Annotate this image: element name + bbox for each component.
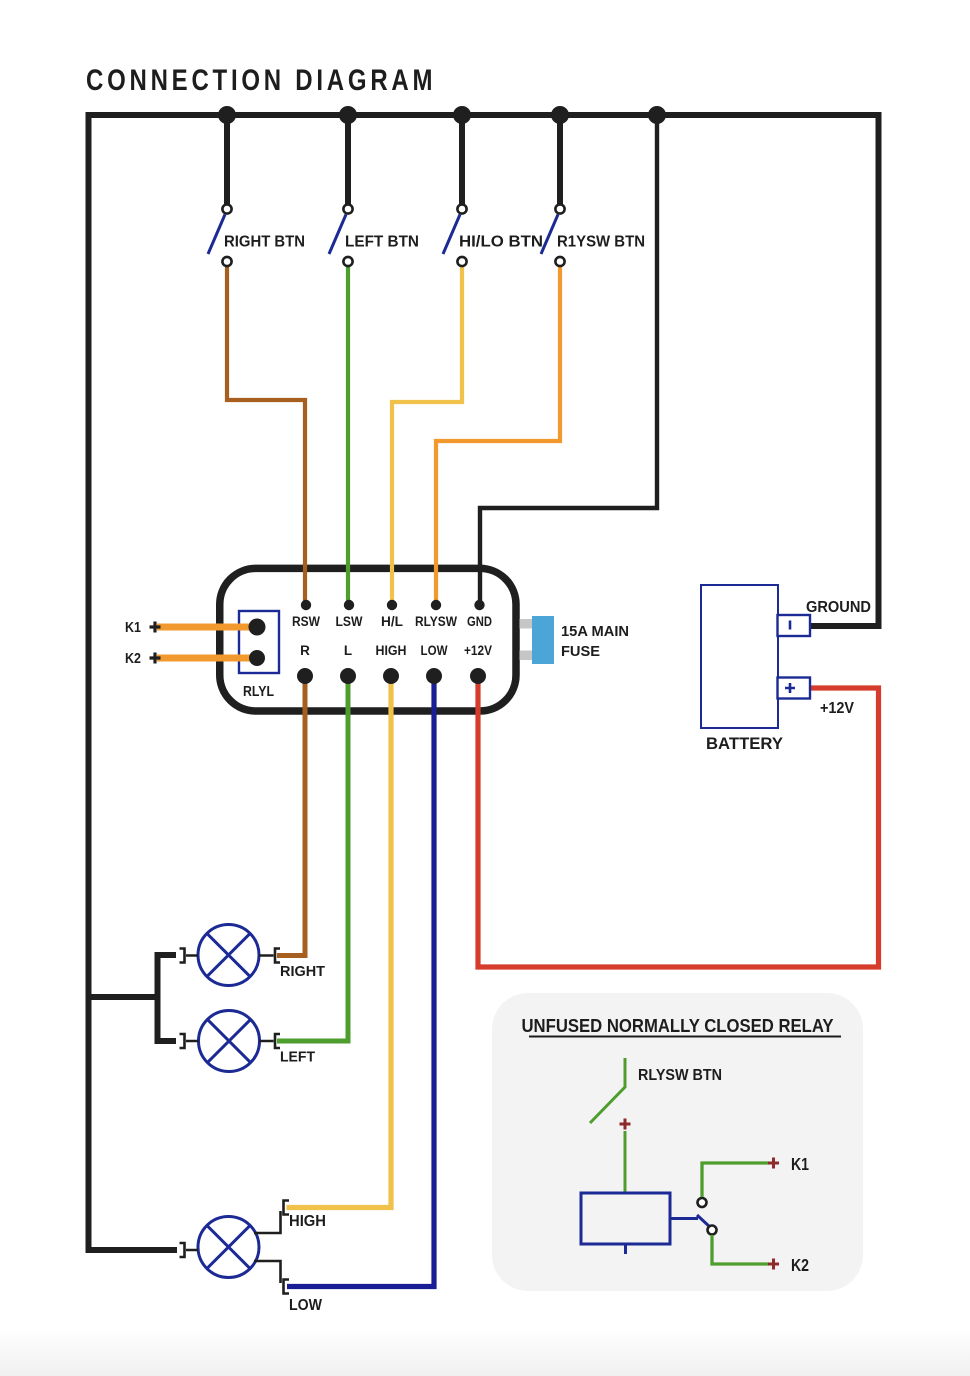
svg-text:R1YSW BTN: R1YSW BTN (557, 234, 645, 251)
svg-text:GROUND: GROUND (806, 599, 871, 616)
svg-text:HIGH: HIGH (289, 1213, 326, 1230)
pin R (297, 668, 313, 684)
pin RSW (301, 600, 311, 610)
wire: brown RSW from RIGHT BTN (227, 266, 305, 602)
fuse F1 body (532, 616, 554, 664)
wire: orange K2 coil lead (157, 655, 257, 662)
wire: orange K1 coil lead (157, 624, 257, 631)
relay contact upper (698, 1198, 707, 1207)
svg-text:CONNECTION DIAGRAM: CONNECTION DIAGRAM (86, 62, 436, 96)
junction node 1 (218, 106, 236, 124)
terminal cross relay top (620, 1119, 631, 1130)
svg-text:K2: K2 (791, 1255, 809, 1275)
relay armature (697, 1215, 711, 1228)
wire: green K1 (702, 1163, 769, 1197)
lamp LEFT (180, 1011, 281, 1072)
svg-text:RSW: RSW (292, 614, 320, 629)
lamp HIGH/LOW (180, 1201, 290, 1294)
relay inset panel (492, 993, 863, 1291)
svg-text:FUSE: FUSE (561, 644, 600, 660)
pin HIGH (383, 668, 399, 684)
wire: switch stub HI/LO BTN (459, 110, 465, 204)
junction node 5 (648, 106, 666, 124)
wire: lamp branch to RIGHT/LEFT lamps (89, 955, 177, 1041)
junction node 4 (551, 106, 569, 124)
svg-text:L: L (344, 643, 352, 658)
controller module body (220, 568, 516, 711)
svg-text:RIGHT: RIGHT (280, 963, 325, 980)
svg-text:LEFT: LEFT (280, 1049, 315, 1066)
wire: green LSW from LEFT BTN (346, 266, 350, 602)
svg-text:K1: K1 (125, 619, 141, 636)
switch RIGHT BTN (208, 204, 232, 266)
battery negative terminal (778, 615, 811, 636)
svg-text:K1: K1 (791, 1154, 809, 1174)
battery BT1 body (701, 585, 778, 728)
wire: switch stub R1YSW BTN (557, 110, 563, 204)
svg-text:R: R (300, 643, 310, 658)
wire: switch stub LEFT BTN (345, 110, 351, 204)
wire: relay common (670, 1217, 698, 1220)
svg-text:RLYL: RLYL (243, 684, 274, 700)
wire: green L output to LEFT lamp (277, 678, 348, 1041)
terminal cross K1 (inset) (768, 1158, 779, 1169)
pin RLYSW (431, 600, 441, 610)
relay coil box (581, 1193, 670, 1244)
svg-text:LEFT BTN: LEFT BTN (345, 234, 419, 251)
wire: GND from bus to controller (480, 115, 657, 603)
wire: orange RLYSW from R1YSW BTN (436, 266, 560, 602)
wire: green coil feed (624, 1131, 627, 1192)
svg-text:15A MAIN: 15A MAIN (561, 624, 629, 640)
pin LSW (344, 600, 354, 610)
wire: red +12V to battery (478, 678, 879, 967)
fuse F1 tab upper (520, 619, 533, 629)
pin RLYL upper (249, 619, 266, 636)
pin LOW (426, 668, 442, 684)
junction node 2 (339, 106, 357, 124)
switch RLYSW BTN (inset) (590, 1058, 625, 1123)
switch R1YSW BTN (541, 204, 565, 266)
relay RLYL box (239, 611, 279, 673)
svg-text:H/L: H/L (381, 614, 403, 629)
pin GND (474, 600, 484, 610)
pin L (340, 668, 356, 684)
junction node 3 (453, 106, 471, 124)
relay contact lower (708, 1226, 717, 1235)
svg-text:UNFUSED NORMALLY CLOSED RELAY: UNFUSED NORMALLY CLOSED RELAY (522, 1016, 834, 1036)
wire: brown R output to RIGHT lamp (277, 678, 305, 956)
svg-text:GND: GND (467, 614, 492, 629)
battery positive terminal (778, 678, 811, 699)
wire: green K2 (712, 1235, 769, 1264)
svg-text:LSW: LSW (336, 614, 363, 629)
switch HI/LO BTN (443, 204, 467, 266)
pin RLYL lower (249, 650, 265, 666)
terminal cross K1 (150, 622, 161, 633)
terminal cross K2 (inset) (768, 1259, 779, 1270)
svg-text:RLYSW: RLYSW (415, 614, 457, 629)
svg-text:HI/LO BTN: HI/LO BTN (459, 234, 543, 251)
wire: yellow HIGH output (287, 678, 392, 1208)
svg-text:LOW: LOW (289, 1297, 323, 1314)
switch LEFT BTN (329, 204, 353, 266)
svg-text:+12V: +12V (820, 700, 854, 717)
svg-text:RIGHT BTN: RIGHT BTN (224, 234, 305, 251)
pin +12V (470, 668, 486, 684)
svg-text:K2: K2 (125, 650, 141, 667)
wire: switch stub RIGHT BTN (224, 110, 230, 204)
svg-text:LOW: LOW (421, 643, 448, 658)
relay coil stub (624, 1244, 627, 1254)
wire: main power bus (top / left / right) (89, 115, 879, 1250)
pin H/L (387, 600, 397, 610)
fuse F1 tab lower (520, 651, 533, 661)
bottom page band (0, 1328, 970, 1376)
svg-text:BATTERY: BATTERY (706, 735, 783, 753)
lamp RIGHT (180, 925, 281, 986)
wire: blue LOW output (287, 678, 434, 1287)
wire: yellow H/L from HI/LO BTN (392, 266, 462, 602)
terminal cross K2 (150, 653, 161, 664)
svg-text:HIGH: HIGH (376, 643, 407, 658)
svg-text:RLYSW BTN: RLYSW BTN (638, 1067, 722, 1084)
svg-text:+12V: +12V (464, 643, 492, 658)
